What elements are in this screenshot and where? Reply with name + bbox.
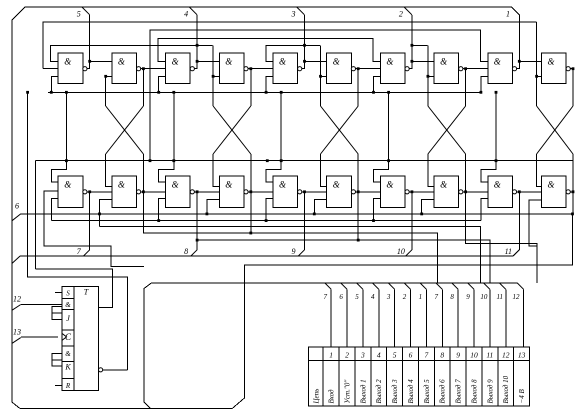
svg-text:8: 8 — [450, 293, 454, 301]
wire: net y45 segment B - gate D5 top input to output tap 3 and D6 lower feed — [266, 45, 320, 61]
wire: gate D10.1 output down to crossing — [570, 69, 573, 106]
wire: D2.2 output route to connector (y=233) — [143, 192, 437, 283]
svg-text:Вход: Вход — [328, 389, 336, 404]
wire: connector bundle bus with left drop — [144, 283, 517, 408]
nand gate D3.1 (top row, &) — [166, 53, 195, 83]
nand gate D6.2 (bottom row, &) — [327, 176, 356, 207]
wire: feed vertical down to even-gate lower input and crossing (stage 4) — [427, 45, 429, 106]
wire: gate D5.1 output to junction and chain to D6.1 — [302, 61, 305, 68]
wire: feed from mid bus into bottom gate D5.2 upper input — [266, 92, 281, 182]
svg-text:1: 1 — [329, 351, 333, 360]
svg-text:8: 8 — [184, 247, 188, 256]
wire: chain D8.1 output to D9.1 middle input — [466, 68, 488, 70]
svg-text:3: 3 — [360, 351, 365, 360]
svg-text:&: & — [172, 57, 179, 67]
wire: connector pin 7 drop — [420, 283, 426, 289]
svg-text:&: & — [65, 301, 71, 309]
svg-text:4: 4 — [377, 351, 381, 360]
wire: stub into gate D2.1 lower input — [106, 75, 112, 77]
svg-text:Выход 10: Выход 10 — [502, 375, 510, 403]
svg-text:&: & — [547, 57, 554, 67]
wire: gate D9.1 output to junction and chain to D10.1 — [517, 61, 520, 68]
wire: gate D5.2 lower input L — [266, 199, 273, 221]
wire: feed vertical down to even-gate lower input and crossing (stage 3) — [320, 45, 322, 106]
svg-text:&: & — [225, 180, 232, 190]
svg-text:6: 6 — [339, 293, 343, 301]
wire: counting line from bottom mid-bus to JK trigger — [35, 269, 112, 307]
wire: X left leg down into bottom gate upper input — [537, 154, 542, 187]
wire bus 4 (y=38) joining gates D3 and D7 top inputs — [158, 38, 380, 61]
wire: bus2 right end down to even-gate lower input (stage 5) — [536, 22, 538, 106]
svg-text:10: 10 — [470, 351, 478, 360]
wire: bottom-odd lower input chain (y=221) — [51, 220, 481, 222]
wire: cross-coupling X (stage 3) — [321, 106, 359, 154]
svg-text:2: 2 — [399, 10, 403, 19]
wire: even-gate lower input stub down to crossing (stage 1) — [105, 76, 107, 106]
svg-text:Выход 7: Выход 7 — [455, 379, 463, 404]
wire: chain D6.1 output to D7.1 middle input — [358, 68, 380, 70]
wire: feed from mid bus into bottom gate D1.2 upper input — [51, 92, 66, 182]
wire: gate D6.1 output down to crossing — [356, 69, 359, 106]
svg-text:&: & — [386, 57, 393, 67]
svg-text:Выход 6: Выход 6 — [439, 379, 447, 404]
wire: connector pin 8 drop — [436, 283, 442, 289]
wire: connector pin 6 drop — [404, 283, 410, 289]
JK flip-flop U1 (trigger) — [62, 286, 99, 390]
wire: feed from mid bus into bottom gate D3.2 upper input — [159, 92, 174, 182]
wire: output tap 3 from top bundle down to gate output — [297, 7, 305, 15]
svg-text:&: & — [440, 57, 447, 67]
wire: gate D1.2 output junction — [87, 191, 90, 193]
nand gate D10.1 (top row, &) — [542, 53, 571, 83]
svg-text:2: 2 — [403, 293, 407, 301]
wire: gate D5.1 lower input down to mid bus — [266, 76, 273, 92]
svg-text:4: 4 — [371, 293, 375, 301]
svg-text:&: & — [386, 180, 393, 190]
nand gate D6.1 (top row, &) — [327, 53, 356, 83]
nand gate D7.1 (top row, &) — [380, 53, 409, 83]
wire: gate D8.2 lower input from set-zero line — [422, 200, 434, 214]
wire: gate D3.1 output to junction and chain to D4.1 — [194, 61, 197, 68]
nand gate D4.2 (bottom row, &) — [219, 176, 248, 207]
wire: gate D3.2 lower input L — [159, 199, 166, 221]
svg-text:&: & — [64, 180, 71, 190]
svg-text:3: 3 — [386, 293, 391, 301]
wire: gate D1.1 lower input down to mid bus — [51, 76, 58, 92]
wire: gate D9.1 lower input down to mid bus — [481, 76, 488, 92]
svg-text:&: & — [64, 57, 71, 67]
pin: J group input pads — [52, 307, 62, 313]
wire: output tap 2 from top bundle down to gate output — [404, 7, 412, 15]
svg-text:5: 5 — [355, 293, 359, 301]
wire: cross-coupling X (stage 1) — [106, 106, 144, 154]
wire: net y45 segment A - gate D1 top input to output tap 4 and D4 lower feed — [51, 45, 213, 61]
wire: gate D1.2 lower input L — [51, 199, 58, 221]
nand gate D8.2 (bottom row, &) — [434, 176, 463, 207]
svg-text:5: 5 — [77, 10, 81, 19]
wire: cross-coupling X (stage 4) — [428, 106, 466, 154]
svg-text:11: 11 — [486, 351, 493, 360]
wire: gate D5.2 output junction — [302, 191, 305, 193]
nand gate D2.1 (top row, &) — [112, 53, 141, 83]
wire: gate D9.2 output junction — [517, 191, 520, 193]
svg-text:&: & — [333, 180, 340, 190]
wire: gate D2.1 output down to crossing — [141, 69, 144, 106]
wire: D10.2 output drop to set-zero line — [572, 192, 574, 214]
nand gate D1.2 (bottom row, &) — [58, 176, 87, 207]
svg-text:10: 10 — [480, 293, 488, 301]
svg-text:&: & — [118, 180, 125, 190]
wire: feed vertical down to even-gate lower input and crossing (stage 2) — [212, 45, 214, 106]
svg-text:T: T — [84, 288, 89, 297]
wire: gate D7.1 lower input down to mid bus — [374, 76, 381, 92]
svg-text:&: & — [65, 350, 71, 358]
svg-text:9: 9 — [456, 351, 460, 360]
pin: clock dynamic input mark — [62, 333, 67, 340]
svg-text:12: 12 — [502, 351, 510, 360]
svg-text:Выход 8: Выход 8 — [470, 379, 478, 404]
wire: X right leg down to bottom gate output junction — [142, 154, 144, 192]
wire: gate D2.2 lower input from set-zero line — [100, 200, 112, 227]
svg-text:&: & — [494, 57, 501, 67]
svg-text:10: 10 — [397, 247, 405, 256]
wire: stub into gate D8.1 lower input — [428, 75, 434, 77]
svg-text:3: 3 — [291, 10, 296, 19]
wire: D6.2 output joins route — [357, 192, 359, 240]
svg-text:&: & — [225, 57, 232, 67]
svg-text:&: & — [333, 57, 340, 67]
wire: gate D4.1 output down to crossing — [248, 69, 251, 106]
wire: mid-bus tap down to JK trigger output loop — [28, 92, 128, 370]
nand gate D5.2 (bottom row, &) — [273, 176, 302, 207]
wire: mid horizontal bus (y=161) — [35, 160, 573, 162]
wire: gate D8.2 output junction and chain — [463, 191, 466, 193]
svg-text:6: 6 — [15, 202, 19, 211]
wire: X left leg down into bottom gate upper input — [106, 154, 112, 187]
wire: feed from mid bus into bottom gate D9.2 upper input — [481, 92, 496, 182]
wire: net y45 segment C - output tap 2 to D8 lower feed — [412, 44, 428, 46]
wire: output 9 drop to bottom tag bus — [304, 192, 306, 250]
svg-text:1: 1 — [506, 10, 510, 19]
nand gate D4.1 (top row, &) — [219, 53, 248, 83]
svg-text:7: 7 — [435, 293, 439, 301]
wire: gate D7.2 output junction — [409, 191, 412, 193]
svg-text:2: 2 — [345, 351, 349, 360]
svg-text:Выход 1: Выход 1 — [359, 379, 367, 403]
wire: connector pin 10 drop — [468, 283, 474, 289]
svg-text:11: 11 — [505, 247, 512, 256]
svg-text:9: 9 — [292, 247, 296, 256]
wire: stub into gate D4.1 lower input — [213, 75, 219, 77]
wire: even-gate lower-input distribution line (y=226) to connector — [100, 227, 481, 284]
wire: connector pin 5 drop — [388, 283, 394, 289]
wire: bus2 left drop into gate D1 middle input — [43, 68, 58, 70]
wire: output 8 drop to bottom tag bus — [196, 192, 198, 250]
wire: connector pin 9 drop — [452, 283, 458, 289]
wire: connector pin 12 drop — [499, 283, 505, 289]
wire bus 3 (y=30) feeding gate D9 top input — [150, 30, 488, 161]
wire: output tap 5 from top bundle down to gate output — [82, 7, 90, 15]
pin: JK trigger inverted output — [99, 368, 103, 372]
wire: D8.2 output route to connector (y=243) — [466, 192, 538, 283]
wire: bus1 right chamfer down to gate D9 output (wire 1) — [512, 7, 520, 61]
wire: gate D9.2 lower input L — [481, 199, 488, 221]
wire: gate D8.1 output down to crossing — [463, 69, 466, 106]
wire: output 11 drop to bottom tag bus — [518, 192, 520, 250]
svg-text:12: 12 — [13, 295, 21, 304]
nand gate D2.2 (bottom row, &) — [112, 176, 141, 207]
wire: stub into gate D6.1 lower input — [321, 75, 327, 77]
svg-text:&: & — [279, 57, 286, 67]
wire: gate D6.2 output junction and chain — [356, 191, 359, 193]
wire: chain D4.1 output to D5.1 middle input — [251, 68, 273, 70]
wire: chain D2.1 output to D3.1 middle input — [143, 68, 165, 70]
svg-text:R: R — [65, 382, 71, 390]
svg-text:5: 5 — [393, 351, 397, 360]
svg-text:Выход 9: Выход 9 — [486, 379, 494, 404]
wire: chip output feedback into gate D1.2 middle input — [44, 191, 144, 266]
svg-text:11: 11 — [497, 293, 503, 301]
wire: gate D1.1 output to junction and chain to D2.1 — [87, 61, 90, 68]
wire: D10.2 lower input link — [529, 200, 542, 246]
wire: connector pin 3 drop — [357, 283, 363, 289]
nand gate D3.2 (bottom row, &) — [166, 176, 195, 207]
svg-text:Выход 2: Выход 2 — [375, 379, 383, 404]
wire: X right leg down to bottom gate output junction — [357, 154, 359, 192]
wire: gate D7.1 output to junction and chain to D8.1 — [409, 61, 412, 68]
nand gate D10.2 (bottom row, &) — [542, 176, 571, 207]
svg-text:12: 12 — [513, 293, 521, 301]
wire: feed from mid bus into bottom gate D7.2 upper input — [374, 92, 389, 182]
svg-text:&: & — [440, 180, 447, 190]
connector table X1 — [309, 347, 530, 406]
wire: gate D7.2 lower input L — [374, 199, 381, 221]
svg-text:9: 9 — [466, 293, 470, 301]
svg-text:S: S — [66, 290, 70, 298]
svg-text:13: 13 — [518, 351, 526, 360]
wire: X left leg down into bottom gate upper input — [321, 154, 327, 187]
wire: gate D4.2 lower input from set-zero line — [207, 200, 219, 214]
wire bus 2 (y=22) — [43, 22, 536, 69]
wire: X left leg down into bottom gate upper input — [428, 154, 434, 187]
svg-text:7: 7 — [323, 293, 327, 301]
nand gate D7.2 (bottom row, &) — [380, 176, 409, 207]
svg-text:K: K — [64, 363, 71, 372]
svg-text:Уст."0": Уст."0" — [344, 380, 352, 404]
wire: gate D4.2 output junction and chain — [248, 191, 251, 193]
svg-text:Выход 4: Выход 4 — [407, 379, 415, 404]
wire: gate D10.2 output junction and chain — [570, 191, 573, 193]
wire: X right leg down to bottom gate output junction — [250, 154, 252, 192]
pin: S input stub — [55, 292, 62, 294]
svg-text:Цепь: Цепь — [312, 389, 320, 405]
wire: cross-coupling X (stage 5) — [537, 106, 573, 154]
nand gate D9.2 (bottom row, &) — [488, 176, 517, 207]
wire: X right leg down to bottom gate output junction — [572, 154, 574, 192]
wire: connector pin 1 drop — [325, 283, 331, 289]
wire: cross-coupling X (stage 2) — [213, 106, 251, 154]
svg-text:&: & — [172, 180, 179, 190]
svg-text:&: & — [118, 57, 125, 67]
svg-text:8: 8 — [440, 351, 444, 360]
nand gate D5.1 (top row, &) — [273, 53, 302, 83]
wire: gate D2.2 output junction and chain — [141, 191, 144, 193]
wire: output tap 4 from top bundle down to gate output — [189, 7, 197, 15]
wire: bottom tag bus (wires 7-11) — [12, 256, 20, 264]
wire: D4.2 output joins route — [250, 192, 252, 233]
wire: output 10 drop to bottom tag bus — [411, 192, 413, 250]
nand gate D8.1 (top row, &) — [434, 53, 463, 83]
nand gate D9.1 (top row, &) — [488, 53, 517, 83]
pin: K group input pads — [52, 353, 62, 359]
svg-text:Выход 5: Выход 5 — [423, 379, 431, 404]
wire: output 7 drop to bottom tag bus — [89, 192, 91, 250]
wire: route line (y=240) to connector — [197, 240, 490, 283]
wire: stub into gate D10.1 lower input — [537, 75, 542, 77]
svg-text:13: 13 — [13, 328, 21, 337]
wire: connector pin 2 drop — [341, 283, 347, 289]
svg-text:1: 1 — [419, 293, 423, 301]
pin: R input stub — [55, 384, 62, 386]
svg-text:4: 4 — [184, 10, 188, 19]
wire: connector pin 11 drop — [484, 283, 490, 289]
wire: gate D3.2 output junction — [194, 191, 197, 193]
svg-text:6: 6 — [409, 351, 413, 360]
wire: gate D3.1 lower input down to mid bus — [159, 76, 166, 92]
svg-text:Выход 3: Выход 3 — [391, 379, 399, 404]
svg-text:&: & — [279, 180, 286, 190]
wire: X left leg down into bottom gate upper input — [213, 154, 219, 187]
wire: gate D6.2 lower input from set-zero line — [314, 200, 326, 214]
svg-text:7: 7 — [424, 351, 428, 360]
svg-text:&: & — [494, 180, 501, 190]
svg-text:J: J — [66, 314, 70, 323]
wire: X right leg down to bottom gate output junction — [465, 154, 467, 192]
wire: mid horizontal bus (y=92) — [48, 91, 481, 93]
wire: bundle right chamfer to pin 13 — [517, 283, 523, 289]
wire: connector pin 4 drop — [373, 283, 379, 289]
nand gate D1.1 (top row, &) — [58, 53, 87, 83]
svg-text:−4 В: −4 В — [518, 389, 526, 404]
svg-text:&: & — [547, 180, 554, 190]
